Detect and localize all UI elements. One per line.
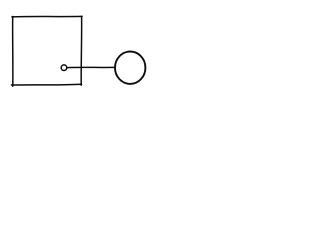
wire [67, 66, 114, 68]
right edge [80, 16, 82, 85]
bottom edge [11, 83, 81, 86]
left edge [12, 17, 14, 87]
pin terminal (small circle) [61, 65, 67, 71]
top edge [12, 15, 82, 18]
box U1 (hand-drawn square) [11, 16, 82, 86]
node (large circle) [115, 51, 145, 83]
